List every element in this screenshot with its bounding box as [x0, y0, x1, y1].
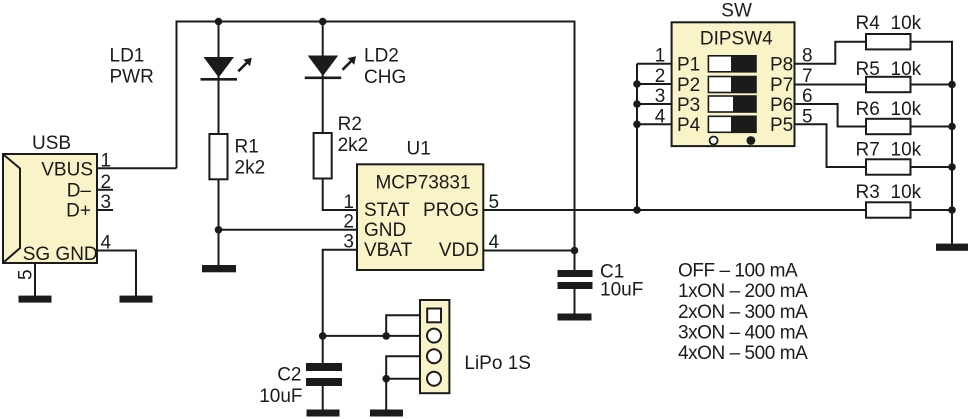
svg-text:DIPSW4: DIPSW4 — [700, 29, 773, 50]
svg-text:4: 4 — [101, 232, 112, 253]
svg-text:LD1: LD1 — [110, 45, 145, 66]
svg-text:P1: P1 — [677, 55, 700, 76]
svg-text:R6: R6 — [856, 99, 880, 120]
svg-text:2xON – 300 mA: 2xON – 300 mA — [678, 302, 808, 323]
svg-text:3: 3 — [101, 192, 112, 213]
svg-text:USB: USB — [32, 133, 71, 154]
svg-text:2: 2 — [655, 66, 666, 87]
svg-text:10k: 10k — [891, 140, 922, 161]
svg-text:C2: C2 — [277, 365, 301, 386]
svg-text:1xON – 200 mA: 1xON – 200 mA — [678, 281, 808, 302]
svg-text:4xON – 500 mA: 4xON – 500 mA — [678, 343, 808, 364]
svg-text:R1: R1 — [235, 137, 259, 158]
svg-text:P3: P3 — [677, 95, 700, 116]
svg-text:10k: 10k — [891, 13, 922, 34]
svg-text:5: 5 — [489, 192, 500, 213]
svg-text:P2: P2 — [677, 75, 700, 96]
svg-text:5: 5 — [16, 269, 37, 280]
svg-text:SW: SW — [721, 1, 752, 22]
svg-text:4: 4 — [489, 232, 500, 253]
svg-text:LD2: LD2 — [364, 46, 399, 67]
svg-text:2k2: 2k2 — [235, 158, 266, 179]
svg-text:1: 1 — [343, 192, 354, 213]
svg-text:8: 8 — [802, 46, 813, 67]
svg-text:2: 2 — [343, 212, 354, 233]
svg-text:CHG: CHG — [364, 67, 406, 88]
svg-text:VDD: VDD — [439, 240, 479, 261]
svg-text:5: 5 — [802, 106, 813, 127]
svg-text:1: 1 — [101, 150, 112, 171]
svg-text:PWR: PWR — [110, 66, 154, 87]
svg-text:3xON – 400 mA: 3xON – 400 mA — [678, 322, 808, 343]
svg-text:R3: R3 — [856, 182, 880, 203]
svg-text:GND: GND — [364, 220, 406, 241]
svg-text:R7: R7 — [856, 140, 880, 161]
svg-text:2k2: 2k2 — [338, 135, 369, 156]
svg-text:R4: R4 — [856, 13, 881, 34]
svg-text:VBAT: VBAT — [364, 240, 413, 261]
svg-text:6: 6 — [802, 86, 813, 107]
svg-text:10uF: 10uF — [600, 280, 643, 301]
svg-text:7: 7 — [802, 66, 813, 87]
svg-text:1: 1 — [655, 46, 666, 67]
svg-text:3: 3 — [655, 86, 666, 107]
svg-text:P8: P8 — [770, 55, 793, 76]
svg-text:R5: R5 — [856, 59, 880, 80]
svg-text:10k: 10k — [891, 182, 922, 203]
svg-text:2: 2 — [101, 172, 112, 193]
svg-text:D+: D+ — [66, 201, 91, 222]
svg-text:U1: U1 — [407, 139, 431, 160]
svg-text:VBUS: VBUS — [41, 159, 93, 180]
svg-text:4: 4 — [655, 106, 666, 127]
svg-text:10k: 10k — [891, 99, 922, 120]
svg-text:10uF: 10uF — [259, 386, 302, 407]
svg-text:P7: P7 — [770, 75, 793, 96]
svg-text:D–: D– — [67, 180, 92, 201]
svg-text:MCP73831: MCP73831 — [375, 172, 470, 193]
svg-text:P5: P5 — [770, 115, 793, 136]
svg-text:OFF – 100 mA: OFF – 100 mA — [678, 261, 798, 282]
svg-text:STAT: STAT — [364, 200, 410, 221]
svg-text:SG GND: SG GND — [23, 244, 98, 265]
svg-text:P4: P4 — [677, 115, 701, 136]
svg-text:PROG: PROG — [423, 200, 479, 221]
svg-text:10k: 10k — [891, 59, 922, 80]
svg-text:LiPo 1S: LiPo 1S — [464, 353, 531, 374]
svg-text:R2: R2 — [338, 114, 362, 135]
svg-text:3: 3 — [343, 232, 354, 253]
svg-text:P6: P6 — [770, 95, 793, 116]
